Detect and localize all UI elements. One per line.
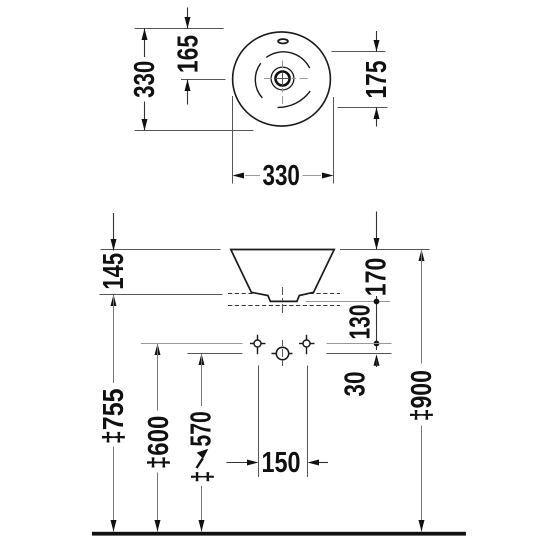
svg-text:175: 175 <box>361 61 393 99</box>
svg-text:570: 570 <box>186 411 218 446</box>
svg-text:‡: ‡ <box>187 471 219 483</box>
svg-text:330: 330 <box>263 160 300 192</box>
svg-text:150: 150 <box>262 447 301 479</box>
svg-text:165: 165 <box>172 35 204 73</box>
svg-text:‡900: ‡900 <box>406 370 438 421</box>
svg-text:30: 30 <box>340 372 372 397</box>
svg-text:‡755: ‡755 <box>98 389 130 445</box>
svg-text:‡600: ‡600 <box>143 416 175 469</box>
svg-text:145: 145 <box>98 253 130 290</box>
svg-text:130: 130 <box>344 305 376 340</box>
svg-text:330: 330 <box>129 61 161 98</box>
svg-text:170: 170 <box>361 258 393 297</box>
